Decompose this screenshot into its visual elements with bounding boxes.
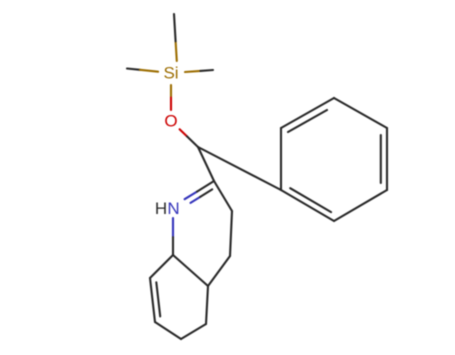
bond Si-O bbox=[170, 85, 172, 98]
double bond N=C2 inner line bbox=[191, 197, 201, 203]
double bond inner phenyl P3-P4 bbox=[380, 135, 382, 183]
bond N-C8a bbox=[172, 218, 174, 237]
bond phenyl P2-P3 bbox=[334, 98, 387, 128]
bond O-C1 bbox=[180, 129, 187, 136]
bond phenyl P5-P0 bbox=[281, 190, 334, 221]
double bond C8=C7 inner bbox=[156, 282, 160, 316]
double bond C8=C7 main bbox=[150, 278, 155, 322]
bond C1-C2 bbox=[198, 147, 214, 181]
svg-text:N: N bbox=[167, 199, 179, 218]
bond C1-phenyl ipso bbox=[198, 147, 281, 190]
bond Si-CH3 (top methyl) bbox=[176, 41, 177, 61]
bond CH3-Si (left methyl) bbox=[127, 69, 140, 70]
bond C5-C4a bbox=[206, 286, 208, 324]
bond C4a-C8a ring fusion bbox=[173, 255, 208, 286]
bond C8a-C8 bbox=[150, 255, 173, 278]
double bond inner phenyl P5-P0 bbox=[290, 188, 331, 212]
bond phenyl P3-P4 bbox=[386, 128, 388, 190]
bond phenyl P4-P5 bbox=[334, 190, 387, 221]
svg-text:H: H bbox=[155, 199, 167, 218]
svg-text:Si: Si bbox=[163, 64, 178, 83]
svg-text:O: O bbox=[164, 112, 177, 131]
bond phenyl P1-P2 bbox=[281, 98, 334, 128]
bond C2-C3 bbox=[214, 181, 232, 211]
bond C7-C6 bbox=[155, 322, 181, 339]
bond phenyl P0-P1 bbox=[280, 128, 282, 190]
bond Si-CH3 (right methyl) bbox=[185, 71, 200, 72]
double bond N=C2 main line bbox=[185, 192, 197, 200]
double bond inner phenyl P1-P2 bbox=[288, 110, 327, 132]
bond C6-C5 bbox=[181, 324, 206, 339]
bond C4-C4a bbox=[208, 256, 230, 286]
bond C3-C4 bbox=[230, 211, 232, 256]
